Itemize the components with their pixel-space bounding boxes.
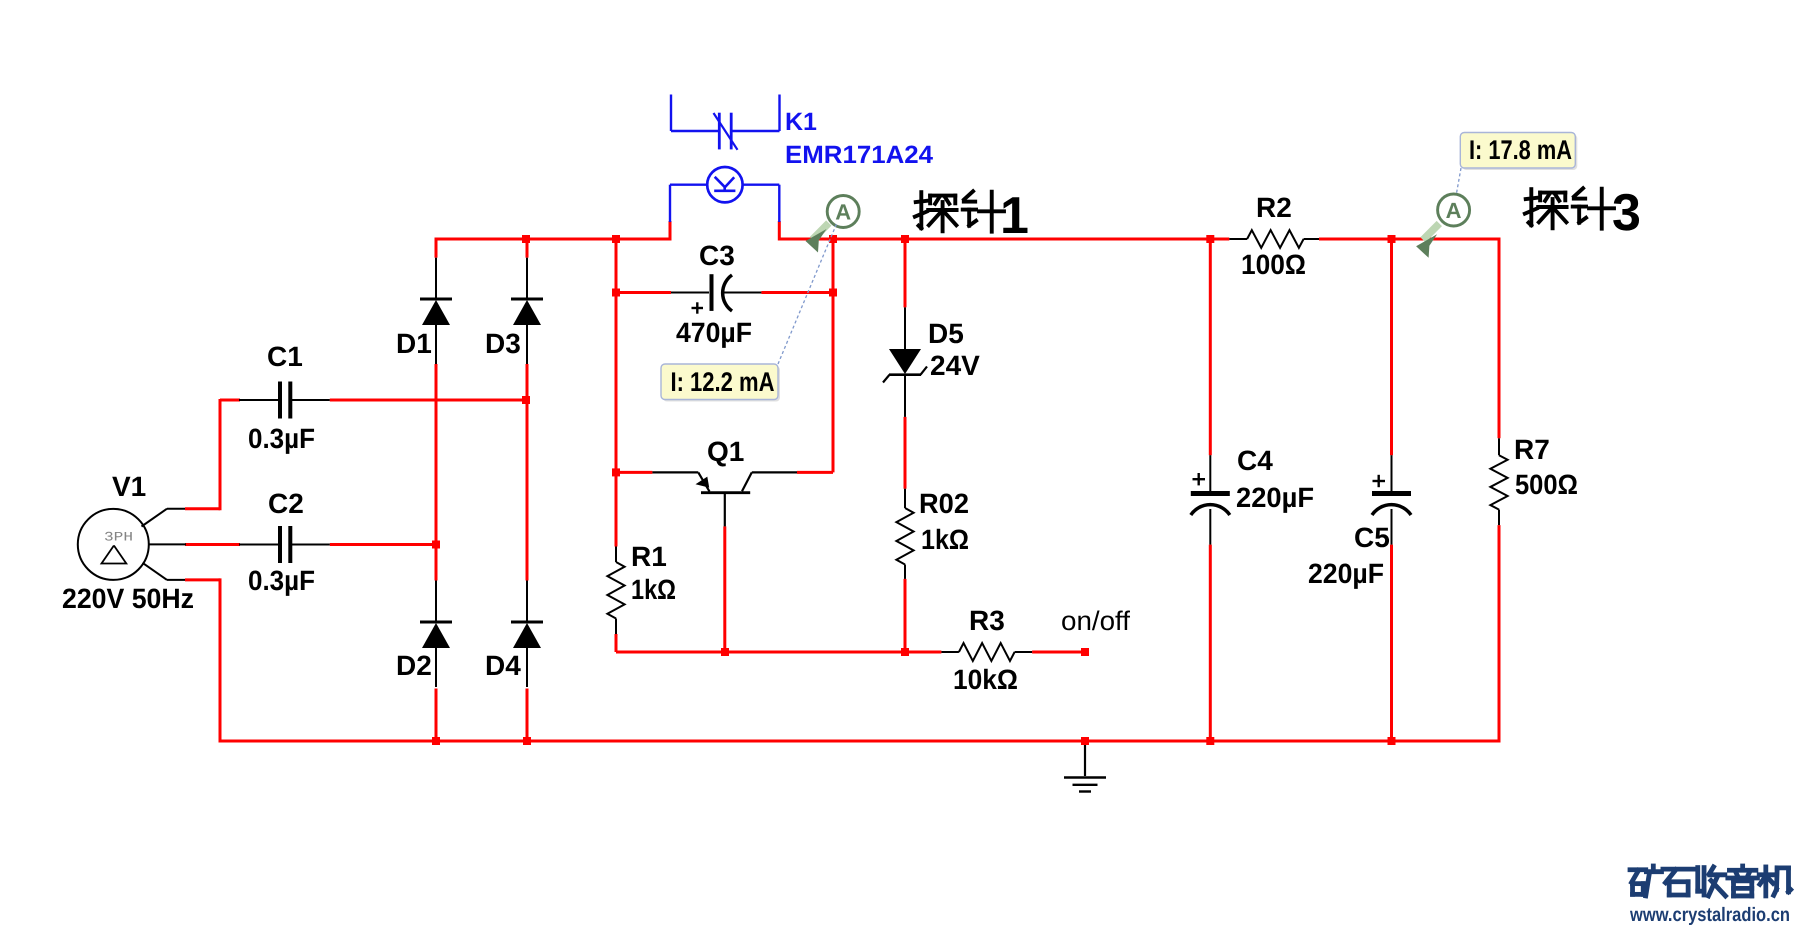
svg-text:K1: K1 (785, 108, 817, 136)
svg-text:0.3µF: 0.3µF (248, 423, 315, 454)
svg-text:V1: V1 (112, 471, 146, 502)
svg-text:A: A (835, 200, 851, 225)
svg-text:0.3µF: 0.3µF (248, 565, 315, 596)
svg-text:220µF: 220µF (1236, 482, 1314, 513)
svg-text:100Ω: 100Ω (1241, 249, 1306, 280)
svg-text:R02: R02 (919, 488, 969, 519)
svg-text:10kΩ: 10kΩ (953, 664, 1018, 695)
svg-text:C2: C2 (268, 488, 304, 519)
svg-text:I: 17.8 mA: I: 17.8 mA (1469, 135, 1572, 165)
svg-text:C1: C1 (267, 341, 303, 372)
svg-text:C5: C5 (1354, 522, 1390, 553)
svg-text:C4: C4 (1237, 445, 1273, 476)
svg-text:3: 3 (1612, 184, 1641, 242)
svg-text:A: A (1446, 198, 1462, 223)
svg-text:Q1: Q1 (707, 436, 744, 467)
svg-text:500Ω: 500Ω (1515, 469, 1578, 500)
svg-text:R2: R2 (1256, 192, 1292, 223)
svg-text:www.crystalradio.cn: www.crystalradio.cn (1629, 904, 1790, 926)
svg-text:220µF: 220µF (1308, 558, 1384, 589)
svg-text:1kΩ: 1kΩ (631, 574, 676, 605)
svg-text:220V 50Hz: 220V 50Hz (62, 583, 194, 614)
svg-text:R7: R7 (1514, 434, 1550, 465)
svg-text:D2: D2 (396, 650, 432, 681)
svg-text:D3: D3 (485, 328, 521, 359)
svg-text:R3: R3 (969, 605, 1005, 636)
svg-text:24V: 24V (930, 350, 980, 381)
svg-text:1kΩ: 1kΩ (921, 524, 969, 555)
svg-text:EMR171A24: EMR171A24 (785, 141, 933, 169)
svg-text:C3: C3 (699, 240, 735, 271)
svg-text:R1: R1 (631, 541, 667, 572)
svg-text:470µF: 470µF (676, 317, 752, 348)
svg-text:D5: D5 (928, 318, 964, 349)
svg-text:D1: D1 (396, 328, 432, 359)
svg-text:D4: D4 (485, 650, 521, 681)
svg-text:on/off: on/off (1061, 606, 1130, 636)
svg-text:I: 12.2 mA: I: 12.2 mA (671, 367, 775, 397)
svg-text:3PH: 3PH (104, 530, 133, 545)
svg-text:1: 1 (1000, 187, 1029, 245)
